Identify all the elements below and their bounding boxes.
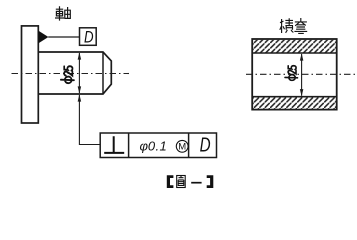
shaft body outline — [38, 52, 111, 94]
圖 glyph — [177, 176, 186, 188]
bore dimension line with arrows — [300, 53, 304, 96]
sleeve centerline — [246, 73, 355, 75]
tolerance value φ0.1 — [140, 139, 168, 154]
label: 襯套 (bushing) — [280, 18, 307, 33]
datum feature triangle (filled) on flange face — [38, 31, 48, 44]
svg-text:M: M — [178, 142, 186, 153]
hatch bottom band — [253, 97, 336, 109]
svg-text:0.1: 0.1 — [148, 139, 167, 154]
svg-text:D: D — [200, 133, 211, 156]
svg-text:D: D — [84, 28, 94, 47]
一 glyph — [191, 182, 201, 184]
centerline (shaft axis) — [12, 73, 130, 75]
bore bottom line — [252, 96, 337, 98]
caption 【圖一】 — [167, 175, 214, 188]
dimension text φ25 (rotated, drawn) — [61, 66, 74, 83]
bracket 】 — [207, 175, 214, 188]
bore top line — [252, 52, 337, 54]
label: 軸 (shaft) — [55, 6, 70, 20]
bracket 【 — [167, 175, 174, 188]
datum leader line — [48, 36, 79, 38]
end cap junction line — [102, 52, 104, 94]
feature control frame — [100, 133, 216, 158]
perpendicularity symbol — [104, 136, 124, 153]
MMC modifier symbol (M in circle) — [176, 140, 188, 152]
datum frame box D — [80, 28, 97, 47]
dimension line (shaft diameter) — [78, 52, 82, 93]
leader from dimension line to feature control frame — [78, 94, 101, 144]
bore dimension text φ25 (rotated, drawn) — [285, 66, 298, 81]
shaft flange — [22, 26, 39, 123]
datum reference letter D in frame — [200, 133, 211, 156]
sleeve outer rectangle — [252, 39, 337, 110]
hatch top band — [253, 40, 336, 53]
